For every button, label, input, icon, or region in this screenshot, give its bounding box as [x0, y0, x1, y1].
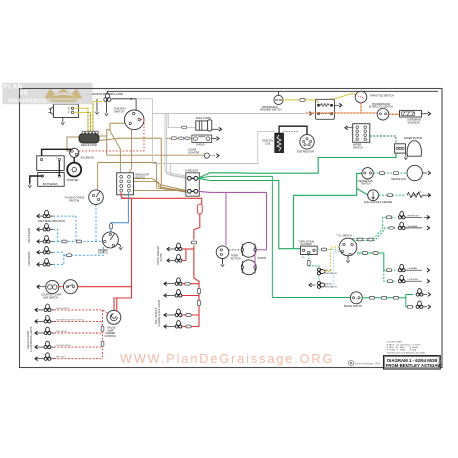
- wire dashed green heater: [373, 172, 407, 174]
- svg-text:FROM BENTLEY AST53AW: FROM BENTLEY AST53AW: [386, 363, 443, 368]
- cigar lighter wire brown: [107, 154, 204, 156]
- wire gray coil feed: [152, 114, 274, 164]
- ground TS switch: [347, 256, 349, 259]
- gauge lamp dimmer control: [105, 310, 121, 338]
- svg-text:STARTER: STARTER: [67, 178, 79, 182]
- wire red headlight to bus: [121, 193, 132, 199]
- wire red dashed row1: [54, 310, 108, 314]
- connector gauge v1: [101, 326, 104, 331]
- svg-text:LH FRONT: LH FRONT: [408, 279, 420, 281]
- wire brown bus y162: [98, 162, 157, 164]
- front marker lamp 2: [167, 255, 182, 263]
- washer switch stub: [278, 91, 280, 95]
- SEC_RIGHTMID: [358, 165, 431, 204]
- high beam lamp 1: [37, 224, 53, 232]
- connector tail4: [186, 325, 191, 328]
- yellow tracer ticks: [88, 104, 93, 133]
- wire yellow dashed TS left: [323, 247, 340, 272]
- svg-text:LICENSE PLATE LAMPS: LICENSE PLATE LAMPS: [158, 300, 161, 327]
- radio: [192, 135, 212, 147]
- svg-text:RH REAR: RH REAR: [408, 225, 418, 228]
- node red junction: [131, 197, 133, 199]
- fuse box: [185, 169, 199, 197]
- wire battery to solenoid black: [42, 149, 71, 156]
- ground horn button: [222, 259, 224, 263]
- wire cyan hb1: [53, 229, 58, 241]
- starter M1: [67, 163, 82, 182]
- wire horn button dashed purple: [229, 249, 242, 251]
- wire cyan lb: [53, 247, 104, 265]
- wire dark green dashed wiper: [370, 136, 396, 144]
- wire red dashed row4: [54, 346, 103, 348]
- inline fuse radio: [171, 137, 176, 140]
- wire red dashed row5: [54, 358, 103, 360]
- gauge lamp row 1: [35, 304, 70, 312]
- gauge lamp row 2: [35, 316, 84, 324]
- wire lamp yellow drop: [92, 102, 94, 133]
- svg-text:FUEL PUMP: FUEL PUMP: [196, 116, 211, 120]
- wire lg dashed flasher to TS switch: [317, 249, 338, 251]
- inline fuse on red: [197, 204, 202, 214]
- wire lamp left yellow: [93, 101, 103, 103]
- cigar lighter: [188, 148, 219, 159]
- svg-text:HIGH BEAM INDICATOR: HIGH BEAM INDICATOR: [38, 220, 65, 223]
- wire red courtesy to bus: [78, 286, 132, 288]
- wire green brake right: [362, 295, 413, 307]
- tail lamp 4: [164, 321, 182, 329]
- RH front lamp: [398, 211, 429, 219]
- svg-text:LH TS: LH TS: [325, 284, 332, 286]
- headlight switch: [117, 173, 150, 195]
- wire brown ignition drop to headlight: [110, 123, 120, 173]
- wire light green B from fuse (brake feed): [198, 176, 273, 297]
- wire brown headlight mid to fusebox: [134, 181, 187, 191]
- arrow into relay: [309, 112, 312, 116]
- wire red marker1: [182, 248, 194, 250]
- svg-text:SWITCH: SWITCH: [353, 146, 363, 149]
- svg-text:MAP LIGHT: MAP LIGHT: [56, 356, 65, 359]
- heater fan switch: [358, 168, 373, 186]
- solenoid: [70, 148, 94, 159]
- low beam lamp 1: [37, 246, 53, 254]
- connectors on hb2: [62, 240, 67, 243]
- svg-text:* T.S. SWITCH: * T.S. SWITCH: [336, 235, 352, 238]
- ground wiper motor: [405, 153, 407, 155]
- svg-text:BUTTON: BUTTON: [231, 257, 241, 260]
- ground near lamp: [96, 99, 98, 110]
- tail lamp 3: [164, 309, 182, 317]
- wire ignition red dashed down-left to solenoid: [79, 120, 144, 151]
- SEC_TOPLEFT: [28, 91, 438, 190]
- RH TS indicator lamp: [317, 268, 337, 275]
- ground dimmer: [118, 244, 121, 246]
- publisher logo: [348, 360, 380, 365]
- brake switch: [344, 292, 362, 308]
- wire green E2 diag to fuel gauge: [357, 189, 368, 195]
- svg-text:WWW.PlanDeGraissage.ORG: WWW.PlanDeGraissage.ORG: [120, 352, 334, 366]
- LH rear lamp: [398, 264, 429, 272]
- ground stub 2: [106, 99, 108, 112]
- fuel sender resistor: [407, 192, 425, 197]
- wire red dashed row3: [54, 332, 103, 334]
- battery 2: [38, 173, 64, 187]
- wire red-yellow dashed throttle down: [306, 103, 377, 113]
- svg-text:*Denotes wires not published o: *Denotes wires not published on all mode…: [387, 351, 425, 354]
- heater fan: [391, 165, 431, 181]
- ignition coil: [262, 133, 284, 152]
- svg-text:RH FRONT: RH FRONT: [408, 215, 420, 217]
- wire dashed green fuel: [379, 194, 407, 196]
- wiper motor: [395, 137, 423, 156]
- wire purple horn button feed: [225, 192, 227, 245]
- connector on yellow: [300, 99, 305, 102]
- SEC_LEGEND: [348, 342, 442, 369]
- svg-text:INDICATOR: INDICATOR: [325, 272, 337, 275]
- svg-text:LH REAR: LH REAR: [408, 267, 418, 270]
- TS switch: [336, 235, 357, 256]
- svg-text:COLOR CODES: COLOR CODES: [387, 342, 402, 344]
- courtesy switch: [41, 280, 78, 300]
- wire gray bus from ignition: [136, 99, 305, 114]
- LH front lamp: [398, 275, 429, 283]
- wire gen F yellow: [74, 112, 91, 133]
- gauge lamp row 3: [35, 327, 68, 335]
- svg-text:COIL: COIL: [265, 142, 271, 145]
- brake lamp 2: [416, 301, 430, 309]
- connector on blue: [110, 224, 113, 229]
- connector RH front: [386, 216, 391, 219]
- oval connector radio 1: [179, 137, 184, 140]
- connector fuel pump: [182, 126, 187, 129]
- wiper switch: [345, 124, 370, 150]
- svg-text:WIPER MOTOR: WIPER MOTOR: [404, 137, 422, 140]
- svg-text:AND SWITCH: AND SWITCH: [43, 296, 58, 299]
- SEC_MIDLEFT: [28, 173, 150, 311]
- wire cyan hb2 to dimmer: [53, 241, 103, 243]
- svg-text:LIGHTS: LIGHTS: [160, 253, 163, 262]
- wire regulator-right brown up to ignition: [99, 123, 126, 155]
- connector tail3: [186, 314, 191, 317]
- svg-text:U Blue W White: U Blue W White N Brown: [387, 346, 418, 349]
- SEC_CENTER: [216, 192, 266, 274]
- wire red drop courtesy: [131, 198, 133, 287]
- wire green E heater and fuel gauge riser: [294, 173, 363, 248]
- wire red tail1: [182, 283, 199, 285]
- fuel gauge: [364, 190, 392, 204]
- LH TS indicator lamp: [309, 282, 337, 289]
- connector tail1: [185, 282, 190, 285]
- wire inter-battery: [58, 161, 60, 177]
- brake lamp 1: [416, 289, 430, 297]
- wire coil side dashed: [284, 131, 300, 133]
- title block: [384, 356, 443, 369]
- wire green C from fuse (flasher): [198, 178, 301, 248]
- wire yellow washer to relay: [283, 99, 316, 101]
- wire lamp to ignition (black): [112, 99, 137, 112]
- wire ignition bottom brown: [129, 129, 132, 173]
- svg-text:SWITCH: SWITCH: [114, 109, 124, 113]
- svg-text:SOLENOID: SOLENOID: [81, 156, 95, 160]
- svg-text:B Black LG Light Green: B Black LG Light Green G Green: [387, 343, 421, 346]
- wire dashed green TS up to RH lamps: [353, 217, 396, 238]
- wire brown headlight right2 to fusebox: [134, 190, 187, 192]
- svg-text:D: D: [68, 108, 70, 111]
- wire red tail2: [182, 295, 199, 297]
- wire gen D yellow: [74, 108, 88, 133]
- svg-text:P Purple Y Yellow: P Purple Y Yellow R Red: [387, 350, 416, 352]
- svg-text:SOLENOID: SOLENOID: [408, 121, 421, 124]
- wire brown bus to fuse area: [99, 138, 187, 190]
- distributor: [297, 135, 314, 154]
- oval connector radio 2: [185, 137, 190, 140]
- overdrive solenoid: [400, 110, 431, 124]
- connector on lg: [321, 248, 326, 251]
- connector on lb: [66, 254, 71, 257]
- low beam lamp 2: [37, 259, 53, 267]
- connector gauge v2: [101, 341, 104, 346]
- wire red tail4: [182, 326, 199, 328]
- horn button: [216, 246, 241, 260]
- wire gray drop fuel pump: [168, 114, 181, 128]
- connectors on green LH: [362, 252, 367, 255]
- wire purple from fuse: [198, 191, 267, 248]
- front marker lamp 1: [167, 243, 182, 251]
- battery 1: [37, 156, 64, 171]
- wire regulator-left brown to solenoid: [67, 137, 79, 151]
- svg-text:INTERLOCK SWITCH: INTERLOCK SWITCH: [369, 106, 393, 109]
- wire red tail3: [182, 314, 199, 316]
- svg-text:BATTERIES: BATTERIES: [43, 182, 58, 186]
- svg-text:HORNS: HORNS: [258, 257, 267, 260]
- high beam lamp 2: [37, 236, 53, 244]
- wire solenoid to starter black: [73, 157, 75, 162]
- watermark gray band top-left: [2, 83, 95, 105]
- wire green A from fuse (to wiper loop): [198, 153, 396, 178]
- ignition switch U1: [114, 107, 144, 130]
- wire red-yellow dashed to OD solenoid: [389, 113, 400, 115]
- wire dashed green LH rear: [384, 269, 396, 271]
- connector on red: [191, 241, 196, 244]
- wire brown headlight right to bus: [134, 179, 187, 193]
- node A: [130, 98, 132, 100]
- SEC_LAMPROWS: [27, 243, 200, 361]
- wire red bus to gauge dimmer: [114, 287, 132, 311]
- svg-text:LIGHTER: LIGHTER: [188, 150, 199, 154]
- wire red main down tail: [194, 249, 199, 327]
- SEC_TURN: [272, 211, 430, 308]
- wire red down to markers: [194, 214, 200, 240]
- svg-text:HIGH BEAMS: HIGH BEAMS: [28, 228, 31, 243]
- courtesy lamp: [37, 280, 59, 293]
- connector tail v1: [198, 288, 201, 293]
- wire red marker2: [182, 249, 186, 261]
- gauge lamp row 5: [35, 353, 65, 361]
- svg-text:DISTRIBUTOR: DISTRIBUTOR: [297, 151, 314, 154]
- svg-text:BRAKE SWITCH: BRAKE SWITCH: [344, 305, 362, 308]
- connectors TS up: [357, 238, 362, 241]
- wire gray drops to fuse box: [165, 114, 187, 177]
- svg-text:CONTROL: CONTROL: [105, 335, 117, 338]
- wire red dashed row2: [54, 320, 103, 322]
- throttle switch: [355, 91, 394, 103]
- svg-text:SWITCH: SWITCH: [135, 176, 145, 179]
- ground generator: [62, 118, 64, 121]
- high beam indicator lamp: [37, 210, 65, 223]
- wire coil to distributor black: [279, 126, 307, 134]
- svg-text:FLASHER: FLASHER: [301, 243, 312, 246]
- svg-text:SWITCH: SWITCH: [361, 183, 371, 186]
- wire cyan dashed TS left: [323, 252, 340, 286]
- generator warning lamp: [104, 91, 111, 101]
- wire brown drop to flash-to-pass: [97, 163, 99, 191]
- transmission interlock switch: [369, 103, 393, 120]
- page sheet border: [20, 89, 443, 368]
- wire cyan dashed FTP down: [95, 205, 97, 242]
- fuel pump: [196, 116, 212, 131]
- tail lamp 1: [164, 278, 182, 286]
- tail lamp 2: [164, 290, 182, 298]
- SEC_TOPMID: [98, 99, 396, 298]
- generator box: [49, 100, 79, 118]
- SEC_TOPRIGHT: [152, 91, 430, 163]
- wire indicator link: [318, 275, 320, 282]
- svg-text:LOW BEAMS: LOW BEAMS: [28, 251, 31, 266]
- wire brown radio feed: [166, 137, 172, 139]
- wire red dashed vertical gauge: [102, 310, 104, 359]
- oval connector RH rear: [389, 227, 394, 230]
- svg-text:FUSE BOX: FUSE BOX: [185, 169, 198, 173]
- svg-text:PLAN: PLAN: [4, 84, 23, 91]
- svg-text:+: +: [56, 156, 58, 160]
- svg-text:ILLUMINATION LAMPS: ILLUMINATION LAMPS: [30, 326, 33, 352]
- svg-text:DE: DE: [20, 91, 29, 97]
- wire purple horns: [255, 248, 267, 267]
- horn 1: [241, 242, 256, 257]
- overdrive relay box: [316, 99, 342, 119]
- svg-text:PlanDeGraissage .ORG: PlanDeGraissage .ORG: [355, 363, 381, 366]
- wire yellow diag to throttle: [316, 94, 356, 100]
- wire top bus black: [107, 90, 438, 92]
- wire blue solid to dimmer: [111, 193, 128, 233]
- svg-text:INDICATOR: INDICATOR: [325, 285, 337, 288]
- svg-text:SWITCH: SWITCH: [98, 252, 108, 255]
- flash-to-pass switch: [64, 190, 103, 205]
- color codes legend: [387, 342, 425, 355]
- wire brown vert to fuse bottom: [157, 163, 187, 192]
- windshield washer switch: [260, 95, 283, 111]
- svg-text:GRAISSAGE: GRAISSAGE: [8, 99, 47, 105]
- wire battery ground: [30, 176, 43, 184]
- wire green brake bus: [272, 297, 350, 299]
- turn signal flasher: [299, 240, 318, 259]
- wire green TS to LH: [357, 253, 384, 270]
- regulator: [79, 131, 99, 147]
- connector tail v2: [198, 300, 201, 305]
- svg-text:HEATER FAN: HEATER FAN: [391, 178, 406, 181]
- wire cyan HB indicator: [53, 216, 76, 241]
- svg-text:THROTTLE SWITCH: THROTTLE SWITCH: [370, 95, 394, 98]
- svg-text:FUEL GAUGE & SENDER: FUEL GAUGE & SENDER: [364, 201, 392, 204]
- svg-text:WASHER SWITCH: WASHER SWITCH: [260, 109, 282, 112]
- wire dashed green flasher to RH indicator: [308, 255, 310, 267]
- wire dashed green LH front: [384, 270, 396, 281]
- svg-text:SWITCH): SWITCH): [69, 199, 79, 202]
- svg-text:RADIO: RADIO: [197, 143, 205, 147]
- svg-text:REGULATOR: REGULATOR: [81, 143, 97, 147]
- wire red bus horizontal: [121, 198, 202, 204]
- RH rear lamp: [398, 222, 429, 230]
- horn 2: [241, 257, 266, 274]
- dimmer switch: [98, 232, 118, 255]
- gauge lamp row 4: [35, 341, 71, 349]
- connectors brake: [369, 296, 374, 299]
